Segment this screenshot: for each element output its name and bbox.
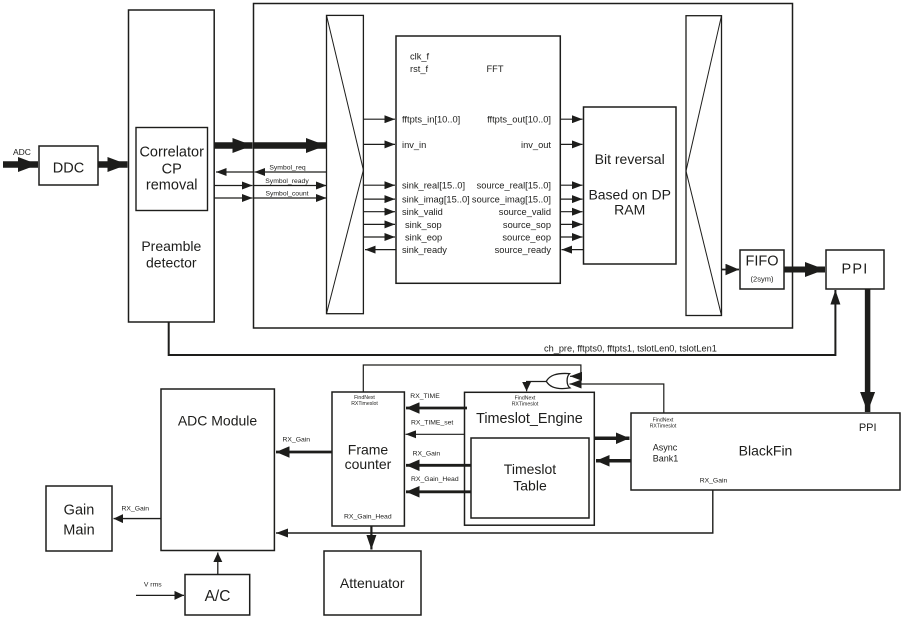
wire mux to sink_eop [364, 236, 395, 238]
wire BlackFin RX_Gain to ADC Module [276, 490, 713, 533]
svg-text:RX_Gain: RX_Gain [700, 478, 728, 485]
block A/C [185, 575, 250, 616]
wire fftpts_out to bit reversal [560, 118, 582, 120]
block Attenuator [324, 551, 421, 615]
svg-text:PPI: PPI [859, 422, 877, 434]
or-gate above Timeslot_Engine [546, 373, 570, 388]
wire source_sop to bit reversal [560, 223, 582, 225]
wire source_imag to bit reversal [560, 198, 582, 200]
wire Frame counter to or-gate [363, 365, 581, 392]
svg-text:RX_TIME: RX_TIME [410, 393, 440, 400]
wire mux to sink_sop [364, 223, 395, 225]
wire V rms to A/C [136, 582, 184, 596]
input mux trapezoid [327, 15, 364, 313]
svg-text:clk_f: clk_f [410, 51, 430, 61]
svg-text:RX_Gain_Head: RX_Gain_Head [411, 476, 459, 483]
wire inv_out to bit reversal [560, 143, 582, 145]
wire RX_Gain Timeslot to Frame counter [406, 450, 471, 465]
svg-text:V rms: V rms [144, 582, 162, 589]
block ADC Module [161, 389, 274, 551]
svg-text:Attenuator: Attenuator [340, 575, 405, 591]
wire source_ready from bit reversal to FFT [562, 249, 584, 251]
wire BlackFin to or-gate [570, 384, 664, 413]
svg-text:RX_Gain_Head: RX_Gain_Head [344, 514, 392, 521]
svg-text:source_real[15..0]: source_real[15..0] [477, 181, 551, 191]
wire source_valid to bit reversal [560, 211, 582, 213]
svg-text:RX_Gain: RX_Gain [413, 450, 441, 457]
output demux trapezoid [686, 16, 722, 316]
svg-text:Async: Async [653, 443, 678, 453]
wire Symbol_ready [214, 178, 326, 186]
svg-text:inv_out: inv_out [521, 140, 551, 150]
svg-text:sink_ready: sink_ready [402, 245, 447, 255]
block BlackFin [631, 413, 900, 490]
wire outer box to input mux thick [254, 142, 327, 149]
svg-text:sink_valid: sink_valid [402, 207, 443, 217]
wire demux to FIFO [722, 269, 740, 271]
svg-text:ADC: ADC [13, 147, 31, 157]
svg-text:inv_in: inv_in [402, 140, 426, 150]
svg-text:Bit reversal: Bit reversal [595, 151, 665, 167]
svg-text:removal: removal [146, 178, 198, 194]
block Correlator CP removal [136, 128, 208, 211]
wire source_eop to bit reversal [560, 236, 582, 238]
svg-text:FIFO: FIFO [745, 253, 778, 269]
svg-text:Symbol_ready: Symbol_ready [265, 178, 309, 185]
wire sink_ready to mux [365, 249, 396, 251]
svg-text:fftpts_out[10..0]: fftpts_out[10..0] [487, 115, 551, 125]
wire mux to sink_valid [364, 211, 395, 213]
block Gain Main [46, 486, 112, 551]
svg-text:FFT: FFT [487, 64, 504, 74]
block FFT [396, 36, 560, 283]
svg-text:Based on DP: Based on DP [588, 186, 671, 202]
svg-text:BlackFin: BlackFin [739, 443, 793, 459]
wire RX_TIME [406, 393, 467, 408]
svg-text:RX_TIME_set: RX_TIME_set [411, 419, 453, 426]
block Preamble detector [129, 10, 215, 322]
wire PPI to BlackFin thick [865, 289, 871, 412]
wire A/C to ADC Module [217, 553, 219, 576]
svg-text:sink_imag[15..0]: sink_imag[15..0] [402, 195, 470, 205]
svg-text:source_imag[15..0]: source_imag[15..0] [472, 195, 551, 205]
svg-text:source_valid: source_valid [499, 207, 551, 217]
wire mux to inv_in [364, 143, 395, 145]
svg-text:RXTimeslot: RXTimeslot [351, 401, 378, 407]
wire RX_Gain ADC Module to Gain Main [114, 506, 161, 519]
block FFT-engine outer box [254, 4, 793, 329]
wire DDC to Preamble detector [98, 161, 128, 168]
wire FIFO to PPI thick [784, 267, 825, 273]
svg-text:A/C: A/C [205, 588, 231, 605]
svg-text:ch_pre, fftpts0, fftpts1, tslo: ch_pre, fftpts0, fftpts1, tslotLen0, tsl… [544, 344, 717, 354]
svg-text:RX_Gain: RX_Gain [283, 437, 311, 444]
wire Timeslot_Engine to BlackFin thick [594, 437, 629, 441]
wire mux to sink_real [364, 184, 395, 186]
wire RX_Gain_Head Timeslot to Frame counter [406, 476, 471, 492]
svg-text:sink_eop: sink_eop [405, 232, 442, 242]
svg-text:Gain: Gain [64, 503, 95, 519]
svg-text:Table: Table [513, 478, 547, 494]
svg-text:Bank1: Bank1 [653, 454, 679, 464]
wire RX_TIME_set [406, 419, 465, 434]
svg-text:counter: counter [345, 456, 392, 472]
svg-text:RXTimeslot: RXTimeslot [512, 402, 539, 408]
wire RX_Gain Frame counter to ADC Module [276, 437, 332, 452]
svg-text:RAM: RAM [614, 202, 645, 218]
svg-text:Timeslot: Timeslot [504, 461, 556, 477]
svg-text:Preamble: Preamble [141, 238, 201, 254]
svg-text:Symbol_req: Symbol_req [269, 165, 305, 172]
svg-text:source_eop: source_eop [502, 232, 551, 242]
block Bit reversal [584, 107, 677, 264]
svg-text:rst_f: rst_f [410, 64, 428, 74]
wire Symbol_req [216, 165, 327, 173]
svg-text:detector: detector [146, 254, 197, 270]
block Timeslot Table [471, 438, 589, 518]
svg-text:DDC: DDC [53, 161, 84, 177]
svg-text:PPI: PPI [842, 262, 869, 278]
wire Symbol_count [214, 191, 326, 199]
svg-text:RX_Gain: RX_Gain [122, 506, 150, 513]
wire BlackFin to Timeslot Table thick [596, 459, 631, 463]
svg-text:source_ready: source_ready [495, 245, 552, 255]
block Timeslot_Engine [465, 392, 595, 525]
svg-text:(2sym): (2sym) [751, 275, 774, 284]
svg-text:sink_sop: sink_sop [405, 220, 442, 230]
svg-text:Timeslot_Engine: Timeslot_Engine [476, 411, 583, 427]
svg-text:RXTimeslot: RXTimeslot [650, 424, 677, 430]
svg-text:source_sop: source_sop [503, 220, 551, 230]
wire mux to sink_imag [364, 198, 395, 200]
wire source_real to bit reversal [560, 184, 582, 186]
block Frame counter [332, 392, 404, 526]
wire ch_pre fftpts0 fftpts1 tslotLen0 tslotLen1 [169, 290, 836, 355]
svg-text:Symbol_count: Symbol_count [265, 191, 308, 198]
svg-text:sink_real[15..0]: sink_real[15..0] [402, 181, 465, 191]
svg-text:fftpts_in[10..0]: fftpts_in[10..0] [402, 115, 460, 125]
svg-text:ADC Module: ADC Module [178, 412, 258, 428]
block FIFO [740, 250, 784, 289]
block PPI [826, 250, 884, 289]
svg-text:Main: Main [63, 523, 94, 539]
svg-text:Frame: Frame [348, 442, 389, 458]
svg-text:Correlator: Correlator [139, 145, 204, 161]
block DDC [39, 146, 98, 185]
wire Frame counter to Attenuator [370, 526, 372, 550]
wire mux to fftpts_in [364, 118, 395, 120]
wire ADC input arrow [3, 161, 38, 168]
wire or-gate to Timeslot_Engine [527, 382, 547, 392]
svg-text:CP: CP [162, 161, 182, 177]
wire Preamble to outer box thick [214, 142, 253, 149]
